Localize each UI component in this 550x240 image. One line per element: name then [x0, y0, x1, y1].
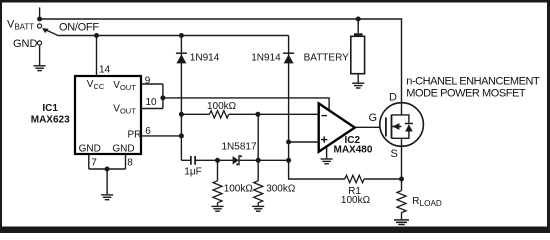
svg-text:S: S [390, 148, 397, 160]
svg-text:1N5817: 1N5817 [222, 141, 257, 152]
svg-text:GND: GND [112, 144, 134, 155]
svg-text:MAX480: MAX480 [334, 145, 373, 156]
svg-text:6: 6 [145, 126, 151, 137]
svg-text:100kΩ: 100kΩ [207, 101, 237, 112]
svg-text:8: 8 [127, 158, 133, 169]
svg-text:BATTERY: BATTERY [304, 53, 350, 64]
svg-text:MODE POWER MOSFET: MODE POWER MOSFET [406, 88, 526, 100]
svg-text:100kΩ: 100kΩ [341, 195, 371, 206]
svg-text:1μF: 1μF [184, 167, 201, 178]
svg-text:10: 10 [146, 97, 158, 108]
svg-text:n-CHANEL ENHANCEMENT: n-CHANEL ENHANCEMENT [406, 76, 540, 88]
svg-text:9: 9 [145, 76, 151, 87]
svg-text:G: G [368, 112, 377, 124]
svg-text:7: 7 [91, 158, 97, 169]
svg-text:PR: PR [128, 129, 142, 140]
svg-text:100kΩ: 100kΩ [224, 184, 254, 195]
svg-text:D: D [389, 91, 397, 103]
svg-text:1N914: 1N914 [251, 53, 281, 64]
svg-text:14: 14 [99, 64, 111, 75]
svg-text:GND: GND [13, 38, 38, 50]
svg-text:GND: GND [79, 144, 101, 155]
svg-text:300kΩ: 300kΩ [266, 184, 296, 195]
svg-text:ON/OFF: ON/OFF [59, 21, 99, 33]
svg-text:1N914: 1N914 [190, 53, 220, 64]
svg-text:IC1: IC1 [42, 103, 58, 114]
svg-text:MAX623: MAX623 [31, 114, 70, 125]
